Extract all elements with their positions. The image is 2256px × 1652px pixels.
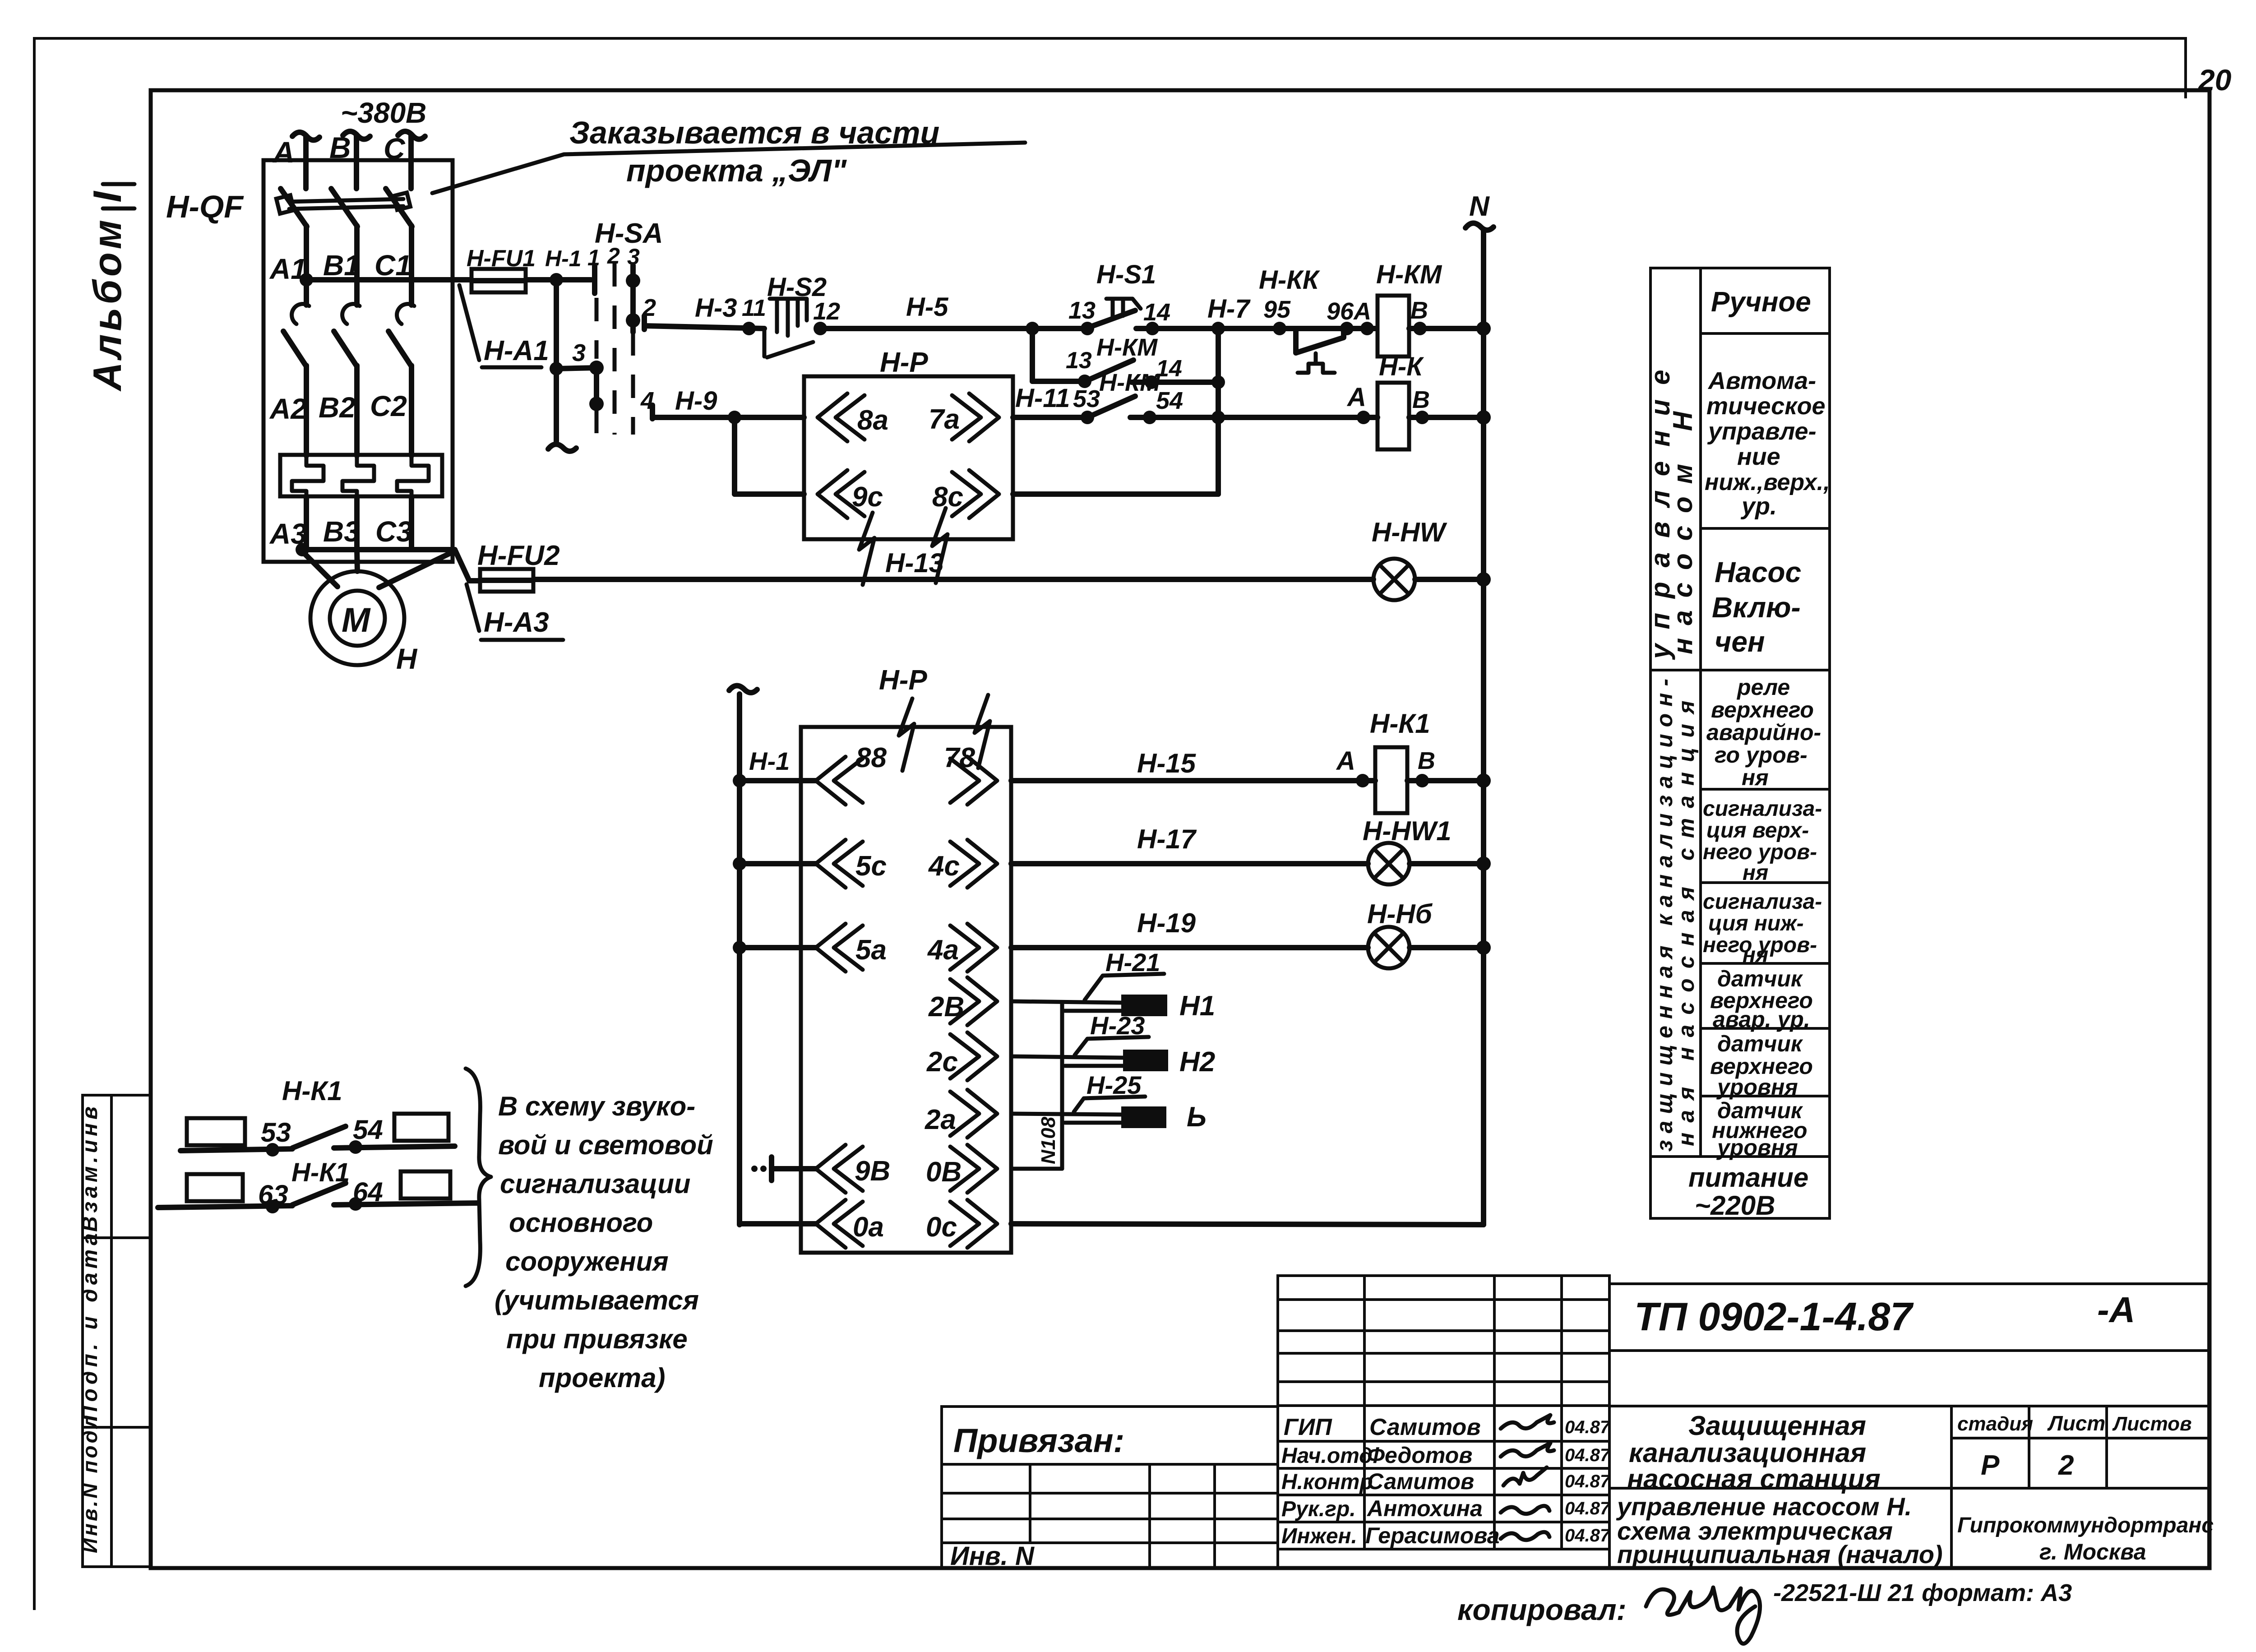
svg-text:В: В xyxy=(1410,297,1428,324)
tick contact 4 xyxy=(650,405,655,419)
svg-text:Н-К: Н-К xyxy=(1379,352,1424,381)
wire C down xyxy=(409,226,414,305)
svg-text:54: 54 xyxy=(353,1115,383,1145)
svg-text:Н-19: Н-19 xyxy=(1137,908,1196,938)
svg-text:13: 13 xyxy=(1068,297,1096,324)
breaker blade C xyxy=(386,189,412,227)
terminal box left r2 xyxy=(187,1174,243,1201)
svg-text:Н-7: Н-7 xyxy=(1207,294,1251,324)
node rail3 at N xyxy=(1476,572,1491,587)
svg-text:ня: ня xyxy=(1743,943,1768,967)
svg-text:04.87: 04.87 xyxy=(1565,1417,1611,1437)
node bypass bottom xyxy=(1211,411,1225,424)
svg-text:Самитов: Самитов xyxy=(1367,1469,1474,1494)
wire to pin 5c xyxy=(740,861,816,866)
svg-text:го уров-: го уров- xyxy=(1715,742,1808,768)
wire B to thermal xyxy=(354,366,360,456)
wire A to A1 node xyxy=(304,226,309,305)
svg-text:Н-КМ: Н-КМ xyxy=(1096,334,1158,361)
wire H-11 xyxy=(1013,415,1091,420)
svg-text:Антохина: Антохина xyxy=(1366,1496,1483,1521)
terminal box left r1 xyxy=(187,1118,245,1145)
svg-text:Н-15: Н-15 xyxy=(1137,748,1197,778)
svg-text:2с: 2с xyxy=(926,1046,958,1078)
svg-text:тическое: тическое xyxy=(1706,393,1826,420)
wire phase C drop xyxy=(408,134,414,189)
wire r2 right xyxy=(334,1203,478,1205)
wire 2B to sensor xyxy=(1011,1001,1121,1003)
wire branch horizontal xyxy=(1032,379,1085,384)
svg-text:Н-Нб: Н-Нб xyxy=(1367,899,1433,929)
svg-text:N: N xyxy=(1469,191,1490,222)
svg-text:М: М xyxy=(342,601,371,639)
svg-text:ур.: ур. xyxy=(1740,493,1777,520)
svg-text:04.87: 04.87 xyxy=(1565,1499,1611,1518)
node bypass mid xyxy=(1211,375,1225,389)
svg-text:ня: ня xyxy=(1742,765,1769,790)
wire branch down-left xyxy=(1030,329,1035,381)
pin 8a chevron xyxy=(818,393,864,441)
break squiggle right xyxy=(932,508,948,583)
wire A to thermal xyxy=(304,366,309,456)
svg-text:Н-Р: Н-Р xyxy=(879,665,927,696)
thermal element B xyxy=(342,455,374,496)
wire 0c to N xyxy=(1011,1224,1484,1225)
break squiggle top left xyxy=(899,699,914,771)
contact blade r1 xyxy=(292,1126,346,1148)
thermal element C xyxy=(397,455,429,496)
svg-text:ция верх-: ция верх- xyxy=(1706,819,1809,842)
svg-text:Ь: Ь xyxy=(1187,1101,1207,1133)
svg-text:Н-К1: Н-К1 xyxy=(282,1076,342,1106)
svg-text:при привязке: при привязке xyxy=(506,1324,688,1354)
svg-text:сигнализа-: сигнализа- xyxy=(1703,890,1822,914)
wire r1 right xyxy=(334,1146,455,1148)
central signature table xyxy=(1278,1276,1609,1568)
contact hook A xyxy=(292,304,309,324)
svg-text:9В: 9В xyxy=(855,1156,890,1187)
svg-text:сооружения: сооружения xyxy=(505,1246,669,1277)
svg-text:аварийно-: аварийно- xyxy=(1706,720,1821,745)
lower blade A xyxy=(283,331,306,366)
svg-text:канализационная: канализационная xyxy=(1629,1438,1866,1468)
svg-text:Н-FU2: Н-FU2 xyxy=(477,540,560,571)
svg-text:Н-3: Н-3 xyxy=(695,293,737,323)
pin 2c chevron xyxy=(950,1032,997,1080)
svg-text:ТП 0902-1-4.87: ТП 0902-1-4.87 xyxy=(1634,1294,1914,1339)
pin 5c chevron xyxy=(816,840,863,888)
node rail2 at N xyxy=(1476,410,1491,425)
svg-text:Автома-: Автома- xyxy=(1707,367,1816,394)
svg-text:Гипрокоммундортранс: Гипрокоммундортранс xyxy=(1957,1513,2214,1537)
node bus junction xyxy=(296,543,309,556)
svg-text:А: А xyxy=(272,135,295,169)
breaker outline box xyxy=(264,160,453,562)
svg-text:Н-1: Н-1 xyxy=(545,246,582,271)
node SA contact 2 xyxy=(626,313,640,328)
node branch left xyxy=(1026,322,1039,335)
node H-1 xyxy=(550,273,563,287)
svg-text:проекта „ЭЛ": проекта „ЭЛ" xyxy=(626,153,847,188)
svg-text:копировал:: копировал: xyxy=(1457,1593,1627,1626)
contact blade r2 xyxy=(292,1183,346,1205)
node SA lower xyxy=(589,397,604,411)
svg-text:78: 78 xyxy=(944,742,975,773)
svg-text:Насос: Насос xyxy=(1715,556,1801,588)
svg-text:ниж.,верх.,: ниж.,верх., xyxy=(1705,469,1830,495)
wire r2 left xyxy=(158,1206,292,1208)
lower blade C xyxy=(388,331,411,366)
svg-text:Взам.инв: Взам.инв xyxy=(78,1103,102,1232)
svg-text:Вклю-: Вклю- xyxy=(1712,591,1801,624)
album label: Альбом I xyxy=(85,184,134,392)
svg-text:питание: питание xyxy=(1688,1162,1808,1193)
svg-text:Н-Р: Н-Р xyxy=(880,347,928,378)
svg-text:4а: 4а xyxy=(927,935,959,966)
node SA 3 top xyxy=(626,273,640,288)
svg-text:~380В: ~380В xyxy=(341,97,426,129)
terminal box right r1 xyxy=(394,1114,448,1141)
svg-text:С1: С1 xyxy=(374,249,411,282)
wire H-15 xyxy=(1011,778,1375,783)
wire phase B drop xyxy=(354,134,359,189)
svg-text:Н-1: Н-1 xyxy=(749,747,790,775)
motor lead right xyxy=(379,551,454,588)
squiggle under N xyxy=(1465,223,1493,230)
svg-text:Н-А3: Н-А3 xyxy=(484,607,549,638)
svg-text:Самитов: Самитов xyxy=(1369,1414,1481,1440)
wire r1 left xyxy=(180,1149,292,1151)
svg-text:Инв.N подл: Инв.N подл xyxy=(78,1413,102,1553)
svg-text:95: 95 xyxy=(1263,296,1291,323)
svg-text:вой и световой: вой и световой xyxy=(498,1130,713,1160)
breaker blade A xyxy=(281,189,307,227)
node supply r2 xyxy=(733,857,746,870)
svg-text:Инв. N: Инв. N xyxy=(950,1541,1035,1571)
signature scribbles xyxy=(1501,1415,1554,1429)
fuse H-FU1 xyxy=(472,269,526,292)
pin 0c chevron xyxy=(950,1200,997,1248)
project title xyxy=(1609,1487,2209,1490)
svg-text:ня: ня xyxy=(1743,861,1768,885)
svg-text:3: 3 xyxy=(572,339,586,366)
svg-text:Федотов: Федотов xyxy=(1367,1443,1472,1468)
left: Privyazan table xyxy=(942,1407,1278,1568)
wire 0B to vertical xyxy=(1011,1167,1062,1171)
svg-text:0с: 0с xyxy=(926,1212,957,1243)
wire 2a to sensor xyxy=(1011,1114,1121,1115)
node A1 junction xyxy=(300,273,313,287)
ground symbol xyxy=(751,1166,758,1172)
sensor H1 xyxy=(1121,995,1167,1016)
svg-text:сигнализа-: сигнализа- xyxy=(1703,797,1822,821)
svg-text:В: В xyxy=(1412,386,1430,413)
svg-text:Н-FU1: Н-FU1 xyxy=(467,245,536,272)
svg-text:Н: Н xyxy=(396,643,418,675)
svg-text:Листов: Листов xyxy=(2112,1413,2192,1435)
svg-text:13: 13 xyxy=(1066,347,1092,374)
svg-text:~220В: ~220В xyxy=(1695,1190,1775,1221)
wire H-17 xyxy=(1011,861,1368,866)
thermal element A xyxy=(292,455,324,496)
wire H-13 xyxy=(533,577,1373,582)
wire H-3 xyxy=(644,326,764,329)
svg-text:проекта): проекта) xyxy=(539,1363,665,1393)
wire H-19 xyxy=(1011,945,1368,950)
svg-text:4с: 4с xyxy=(928,851,960,882)
svg-text:В1: В1 xyxy=(323,249,360,282)
svg-text:Герасимова: Герасимова xyxy=(1365,1523,1500,1548)
svg-text:7а: 7а xyxy=(929,404,960,435)
contact hook B xyxy=(342,304,360,324)
svg-text:Привязан:: Привязан: xyxy=(953,1422,1124,1459)
wire H-1 vertical xyxy=(554,280,559,441)
bottom bus wire xyxy=(302,547,455,552)
wire phase A drop xyxy=(303,135,309,189)
svg-text:С2: С2 xyxy=(370,390,407,422)
svg-text:В3: В3 xyxy=(323,515,360,548)
svg-text:А2: А2 xyxy=(269,393,307,425)
svg-text:5с: 5с xyxy=(855,851,887,882)
svg-text:принципиальная (начало): принципиальная (начало) xyxy=(1617,1540,1943,1569)
wire bus to fuse2 xyxy=(455,550,480,581)
curly brace xyxy=(466,1069,491,1286)
svg-text:0а: 0а xyxy=(853,1212,884,1243)
svg-text:Н-КМ: Н-КМ xyxy=(1376,260,1442,289)
svg-text:ГИП: ГИП xyxy=(1284,1414,1332,1440)
pin 2a chevron xyxy=(950,1090,997,1138)
bypass vertical wire xyxy=(1216,329,1221,494)
thermal overload block xyxy=(280,455,442,496)
svg-text:-А: -А xyxy=(2097,1290,2135,1330)
supply vertical wire xyxy=(737,694,742,1225)
svg-text:2В: 2В xyxy=(928,991,964,1023)
wire C3 xyxy=(409,496,414,550)
svg-text:-22521-Ш 21 формат: А3: -22521-Ш 21 формат: А3 xyxy=(1773,1579,2072,1606)
svg-text:Н-S1: Н-S1 xyxy=(1096,260,1156,289)
svg-text:уровня: уровня xyxy=(1716,1074,1798,1100)
breaker blade B xyxy=(331,189,357,227)
svg-text:реле: реле xyxy=(1736,675,1790,700)
svg-text:Нач.отд: Нач.отд xyxy=(1281,1444,1373,1468)
svg-text:сигнализации: сигнализации xyxy=(500,1169,690,1199)
wire to pin 0a xyxy=(740,1221,816,1226)
svg-text:Н-11: Н-11 xyxy=(1015,384,1070,413)
break squiggle top right xyxy=(975,695,990,768)
wire fuse to node H-1 xyxy=(526,277,591,282)
node r2 at N xyxy=(1476,856,1491,871)
SA dashed line 2 xyxy=(613,263,617,435)
svg-text:04.87: 04.87 xyxy=(1565,1472,1611,1491)
svg-text:Р: Р xyxy=(1981,1450,2000,1481)
sensor L xyxy=(1121,1106,1166,1128)
svg-text:Н1: Н1 xyxy=(1179,990,1215,1022)
svg-text:8а: 8а xyxy=(857,405,888,436)
svg-text:насосная станция: насосная станция xyxy=(1627,1464,1881,1494)
svg-text:Лист: Лист xyxy=(2047,1411,2105,1435)
svg-text:насосом Н: насосом Н xyxy=(1668,399,1698,654)
svg-text:С3: С3 xyxy=(375,515,412,548)
svg-text:датчик: датчик xyxy=(1717,1031,1803,1056)
svg-text:Н-НW1: Н-НW1 xyxy=(1363,816,1452,846)
wire B down xyxy=(354,226,360,305)
trip bar xyxy=(289,199,403,209)
svg-text:верхнего: верхнего xyxy=(1711,697,1814,722)
svg-text:ная насосная станция: ная насосная станция xyxy=(1674,691,1699,1146)
squiggle end of H-1 xyxy=(548,444,576,451)
node 11 xyxy=(742,322,756,335)
wire B3 xyxy=(354,496,360,550)
SA line1 solid segment xyxy=(594,368,599,404)
lower blade B xyxy=(334,331,357,366)
SA dashed line 1 xyxy=(595,298,599,359)
svg-text:Н2: Н2 xyxy=(1179,1046,1215,1078)
contact hook C xyxy=(397,304,414,324)
leader to H-A1 xyxy=(459,285,479,360)
node r1 at N xyxy=(1476,773,1491,788)
node rail1 at N xyxy=(1476,321,1491,336)
svg-text:Ручное: Ручное xyxy=(1711,287,1811,318)
svg-text:Н-А1: Н-А1 xyxy=(484,335,549,366)
wire to SA pos3 xyxy=(556,368,596,369)
phase terminal A xyxy=(292,132,319,140)
phase terminal C xyxy=(398,131,425,139)
node 3 branch xyxy=(550,362,563,375)
svg-text:Н-13: Н-13 xyxy=(885,548,944,578)
svg-text:управле-: управле- xyxy=(1707,418,1817,445)
svg-text:В схему звуко-: В схему звуко- xyxy=(498,1091,695,1121)
svg-text:авар. ур.: авар. ур. xyxy=(1713,1007,1810,1032)
svg-text:г. Москва: г. Москва xyxy=(2039,1539,2146,1564)
svg-text:Н-КМ: Н-КМ xyxy=(1099,369,1160,396)
svg-text:стадия: стадия xyxy=(1957,1413,2033,1435)
svg-text:53: 53 xyxy=(261,1117,291,1148)
SA line3 solid segment xyxy=(630,265,636,332)
terminal box right r2 xyxy=(401,1171,450,1199)
svg-text:Подп. и дата: Подп. и дата xyxy=(78,1229,102,1421)
motor M circle xyxy=(310,571,404,665)
right header: TP number xyxy=(1609,1284,2209,1568)
svg-text:N108: N108 xyxy=(1037,1116,1059,1164)
svg-text:Рук.гр.: Рук.гр. xyxy=(1281,1497,1356,1521)
svg-text:Н-5: Н-5 xyxy=(906,292,948,322)
svg-text:основного: основного xyxy=(509,1208,653,1238)
node 9c drop xyxy=(728,411,741,424)
wire down to 9c row xyxy=(732,417,737,494)
wire C to thermal xyxy=(409,366,414,456)
svg-text:уровня: уровня xyxy=(1716,1135,1798,1160)
wire A3 xyxy=(304,496,309,550)
svg-text:В2: В2 xyxy=(319,391,356,424)
svg-text:Н-17: Н-17 xyxy=(1137,824,1197,854)
svg-text:14: 14 xyxy=(1143,299,1170,326)
leader to H-A3 xyxy=(467,584,479,631)
svg-text:А: А xyxy=(1336,746,1355,776)
svg-text:Н.контр: Н.контр xyxy=(1281,1470,1373,1494)
svg-text:Н-КК: Н-КК xyxy=(1259,265,1320,295)
pin 78 chevron xyxy=(950,757,997,805)
svg-text:0В: 0В xyxy=(926,1157,962,1188)
fuse H-FU2 xyxy=(480,569,533,592)
wire to pin 5a xyxy=(740,945,816,950)
pin 7a chevron xyxy=(952,393,999,441)
break squiggle left xyxy=(859,513,874,585)
wire to pin 88 xyxy=(740,778,816,783)
svg-text:12: 12 xyxy=(813,298,840,325)
wire 8c return xyxy=(1013,491,1218,497)
sensor return vertical N108 xyxy=(1060,1003,1064,1169)
node SA 3-branch xyxy=(589,361,604,375)
svg-text:А: А xyxy=(1346,383,1366,412)
svg-text:53: 53 xyxy=(1073,385,1100,412)
stage/sheet cells xyxy=(1951,1437,2209,1439)
node 12 xyxy=(814,322,827,335)
wire H-5 xyxy=(820,326,1091,331)
svg-text:88: 88 xyxy=(855,742,887,773)
motor lead left xyxy=(302,551,337,587)
svg-text:Альбом I: Альбом I xyxy=(85,188,129,392)
svg-text:5а: 5а xyxy=(855,935,887,966)
node supply r3 xyxy=(733,941,746,954)
svg-text:54: 54 xyxy=(1156,387,1183,414)
left stamp column xyxy=(78,1095,151,1567)
pin 0a chevron xyxy=(816,1200,863,1248)
svg-text:2а: 2а xyxy=(925,1104,956,1135)
wire 2c to sensor xyxy=(1011,1056,1123,1058)
svg-text:В: В xyxy=(1418,747,1435,774)
pin 8c chevron xyxy=(952,470,999,518)
node supply r1 xyxy=(733,774,746,787)
pin 4c chevron xyxy=(950,840,997,888)
svg-text:11: 11 xyxy=(742,295,766,321)
svg-text:2: 2 xyxy=(2058,1450,2074,1481)
pin 0B chevron xyxy=(950,1145,997,1193)
pin 2B chevron xyxy=(950,977,997,1025)
pin 4a chevron xyxy=(950,924,997,972)
svg-text:96А: 96А xyxy=(1327,298,1371,325)
svg-text:(учитывается: (учитывается xyxy=(495,1285,699,1315)
svg-text:Защищенная: Защищенная xyxy=(1688,1411,1866,1441)
SA dashed line 3 xyxy=(631,332,635,435)
tick contact 2 xyxy=(642,316,647,329)
svg-text:9с: 9с xyxy=(852,481,883,513)
pin 5a chevron xyxy=(816,924,863,972)
svg-text:Н-9: Н-9 xyxy=(675,386,717,416)
svg-text:ция ниж-: ция ниж- xyxy=(1708,912,1804,935)
SA tick pos1 xyxy=(592,266,597,293)
node r3 at N xyxy=(1476,940,1491,955)
wire H-9 xyxy=(655,415,804,420)
supply squiggle top xyxy=(729,685,757,693)
svg-text:Инжен.: Инжен. xyxy=(1281,1524,1357,1548)
pin 9c chevron xyxy=(818,470,864,518)
motor lead mid xyxy=(357,550,357,571)
wire N vertical xyxy=(1481,231,1486,1225)
phase terminal B xyxy=(343,131,370,139)
pin 88 chevron xyxy=(816,757,863,805)
svg-text:чен: чен xyxy=(1715,625,1765,658)
node bypass top xyxy=(1211,322,1225,335)
svg-text:Н-QF: Н-QF xyxy=(166,189,244,224)
wire A1 to fuse xyxy=(306,277,472,282)
svg-text:ние: ние xyxy=(1737,443,1780,470)
svg-text:04.87: 04.87 xyxy=(1565,1526,1611,1546)
svg-text:Н-К1: Н-К1 xyxy=(1370,708,1430,739)
svg-text:04.87: 04.87 xyxy=(1565,1445,1611,1465)
sensor H2 xyxy=(1123,1050,1168,1071)
svg-text:Н-НW: Н-НW xyxy=(1372,517,1447,547)
pin 9B chevron xyxy=(816,1145,863,1193)
